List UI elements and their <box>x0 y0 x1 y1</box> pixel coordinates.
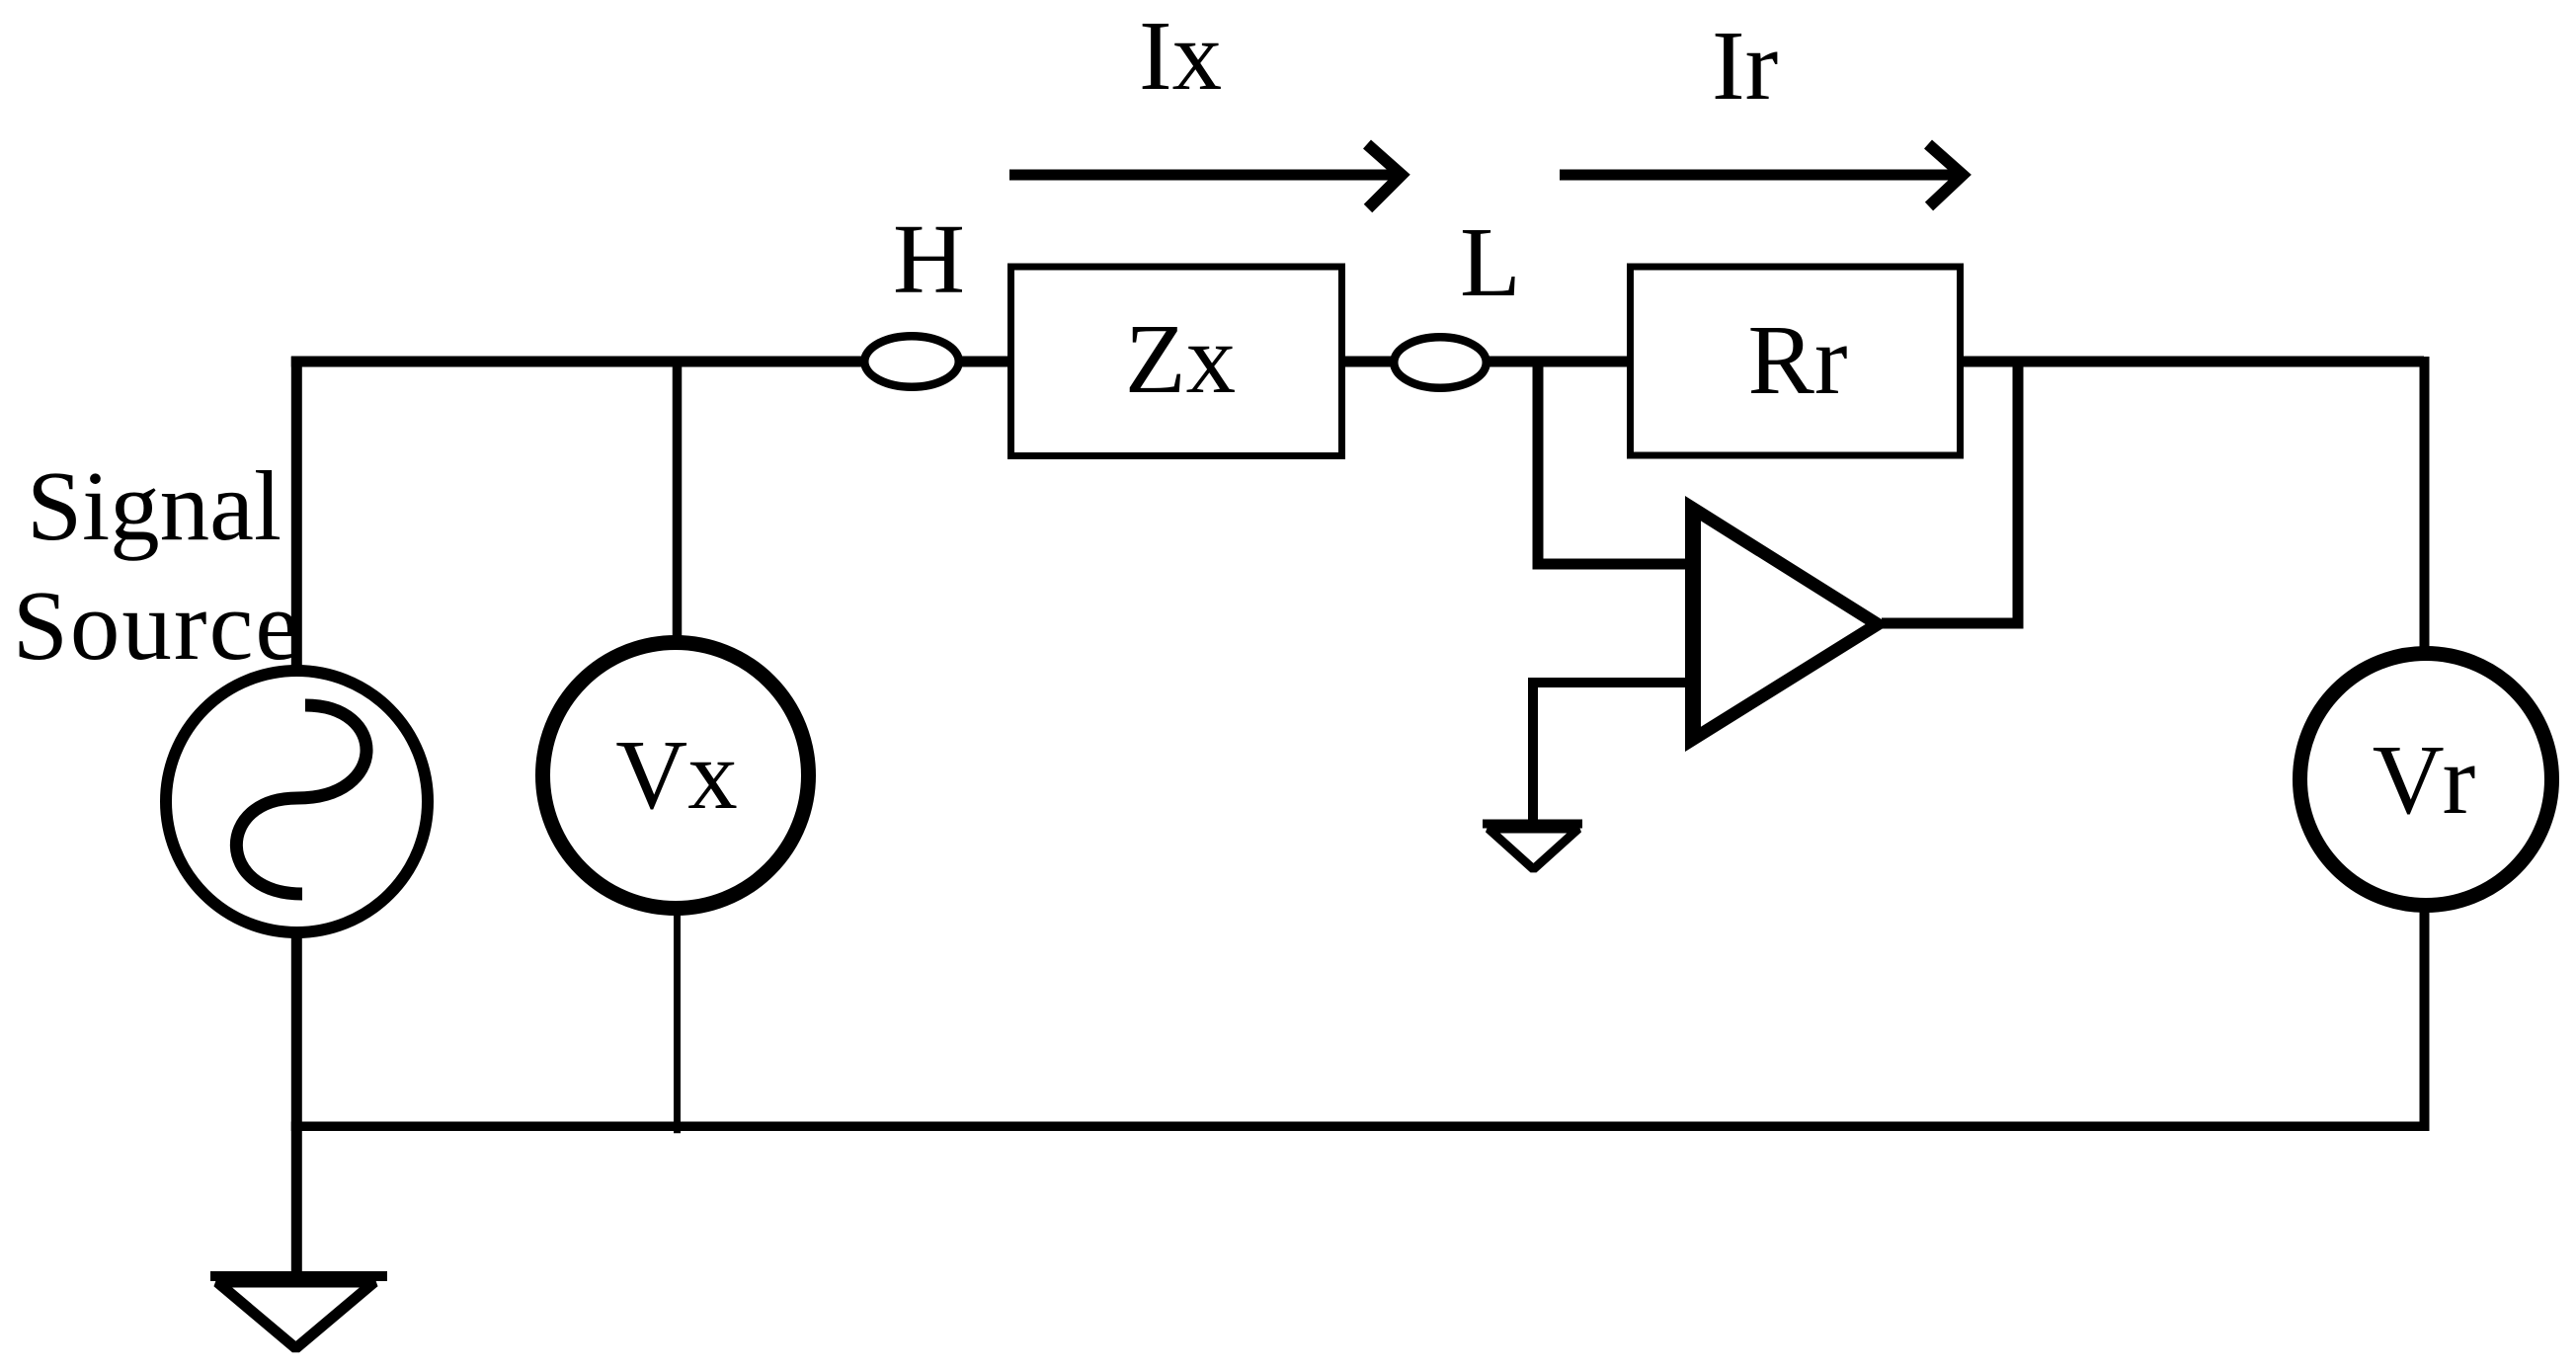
impedance Zx box <box>1011 267 1342 456</box>
node H terminal ellipse <box>864 336 959 387</box>
svg-text:Vx: Vx <box>615 719 737 830</box>
svg-text:Source: Source <box>13 570 301 681</box>
wire: Rr to top-right corner <box>1916 357 2424 367</box>
current arrow Ir shaft <box>1560 170 1964 181</box>
svg-text:Zx: Zx <box>1125 303 1236 414</box>
current arrow Ir head <box>1928 144 1963 206</box>
svg-text:Vr: Vr <box>2373 724 2480 835</box>
wire: op-amp output <box>1882 618 2024 629</box>
current arrow Ix shaft <box>1009 170 1403 181</box>
wire: node L to Rr <box>1440 357 1679 367</box>
voltmeter Vr circle <box>2300 654 2552 906</box>
wire: bottom rail <box>291 1122 2424 1132</box>
wire: op-amp non-inverting input <box>1533 683 1691 824</box>
current arrow Ix head <box>1367 144 1402 208</box>
signal source circle <box>166 671 428 932</box>
node L terminal ellipse <box>1394 337 1487 388</box>
svg-text:Ix: Ix <box>1139 0 1222 111</box>
svg-text:Signal: Signal <box>27 450 282 561</box>
op-amp ground bar <box>1483 820 1582 829</box>
op-amp U1 triangle <box>1685 496 1890 752</box>
wire: junction to op-amp inverting input <box>1538 362 1691 564</box>
wire: top rail from signal source to node H <box>291 357 912 367</box>
signal source sine symbol <box>236 705 366 894</box>
wire: signal source top lead <box>291 357 302 682</box>
svg-text:Ir: Ir <box>1712 10 1778 121</box>
wire: Zx to node L <box>1284 357 1440 367</box>
wire: Vx top lead <box>673 362 683 652</box>
svg-text:Rr: Rr <box>1748 304 1848 415</box>
op-amp ground triangle <box>1489 829 1578 869</box>
wire: feedback from output to top rail <box>2013 362 2024 623</box>
voltmeter Vx circle <box>543 643 809 909</box>
signal source ground bar <box>210 1271 387 1281</box>
wire: Vr bottom lead <box>2420 904 2430 1131</box>
resistor Rr box <box>1631 267 1961 455</box>
wire: Vx bottom lead <box>674 904 681 1133</box>
wire: node H to Zx <box>912 357 1087 367</box>
wire: signal source bottom lead to ground <box>291 933 302 1278</box>
wire: top-right corner down to Vr <box>2420 357 2430 652</box>
signal source ground triangle <box>217 1282 374 1348</box>
svg-text:L: L <box>1460 206 1521 317</box>
svg-text:H: H <box>893 203 965 314</box>
